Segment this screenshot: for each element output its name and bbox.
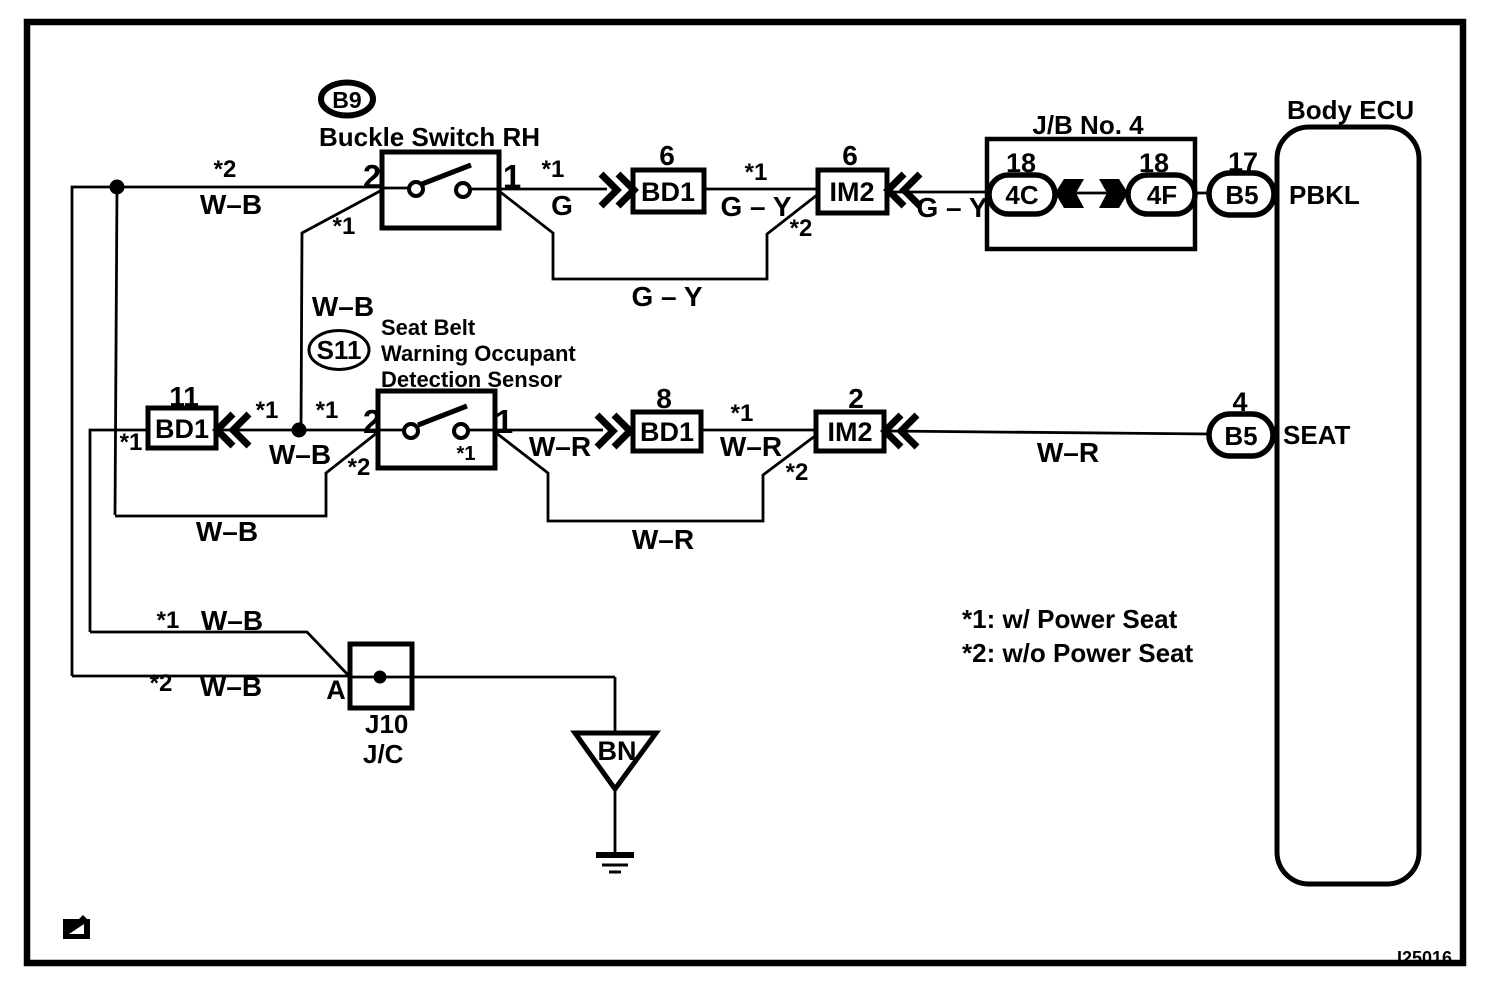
- ECU Body ECU box: [1277, 127, 1419, 884]
- svg-text:BD1: BD1: [640, 417, 694, 447]
- label *1 inside S11 box: [457, 443, 476, 465]
- wire *1 W-B branch to J10: [90, 632, 350, 677]
- pin 18 of 4F: [1139, 148, 1169, 178]
- label *1 on BD1 row2 left wire: [120, 429, 143, 456]
- svg-text:Warning Occupant: Warning Occupant: [381, 341, 576, 366]
- wire G-Y from BD1 to IM2 row1: [704, 188, 818, 191]
- junction block J/B No.4 box: [987, 139, 1195, 249]
- svg-text:W–R: W–R: [720, 431, 782, 462]
- svg-text:*1: *1: [457, 443, 476, 465]
- svg-text:W–B: W–B: [312, 291, 374, 322]
- wire G-Y *2 bypass loop row1: [499, 191, 817, 279]
- svg-text:Detection Sensor: Detection Sensor: [381, 367, 562, 392]
- svg-text:SEAT: SEAT: [1283, 420, 1351, 450]
- svg-text:*1: *1: [157, 607, 180, 634]
- svg-text:4F: 4F: [1147, 180, 1177, 210]
- switch B9 contacts and lever: [382, 165, 499, 197]
- svg-text:4C: 4C: [1005, 180, 1038, 210]
- svg-text:Seat Belt: Seat Belt: [381, 315, 476, 340]
- svg-text:*2: w/o Power Seat: *2: w/o Power Seat: [962, 638, 1194, 668]
- svg-text:W–B: W–B: [200, 671, 262, 702]
- terminal name PBKL: [1289, 180, 1360, 210]
- wire G from B9 pin 1 to BD1: [499, 188, 607, 191]
- component name Seat Belt Warning Occupant Detection Sensor: [381, 315, 576, 392]
- value label W-B on *2 J10 branch: [200, 671, 262, 702]
- svg-text:A: A: [326, 675, 346, 705]
- pin 1 of switch S11: [495, 403, 513, 440]
- splice arrows out of IM2 row1: [888, 174, 920, 206]
- svg-text:*2: *2: [214, 156, 237, 183]
- svg-text:W–B: W–B: [269, 439, 331, 470]
- wire W-R from S11 pin 1 to BD1 row2 right: [495, 429, 603, 432]
- svg-text:W–B: W–B: [201, 605, 263, 636]
- svg-text:G – Y: G – Y: [720, 191, 791, 222]
- value label W-R middle: [720, 431, 782, 462]
- splice arrows into BD1 row1: [601, 174, 634, 206]
- pin 17 of B5 row1: [1228, 147, 1258, 177]
- value label W-B row1 wire: [200, 189, 262, 220]
- wire W-R *2 bypass loop row2: [495, 432, 815, 521]
- svg-text:*1: *1: [542, 156, 565, 183]
- component name Buckle Switch RH: [319, 122, 540, 152]
- pin 6 of IM2 row1: [842, 140, 858, 171]
- label *1 on B9 diagonal: [333, 213, 356, 240]
- svg-text:*2: *2: [786, 459, 809, 486]
- svg-text:2: 2: [848, 383, 864, 414]
- wire W-B row1 from left bend to switch B9 pin 2: [72, 187, 382, 676]
- svg-text:IM2: IM2: [829, 177, 874, 207]
- label *1 on wire W-R: [731, 400, 754, 427]
- value label W-B on *1 J10 branch: [201, 605, 263, 636]
- note *2 w/o Power Seat: [962, 638, 1194, 668]
- pin 6 of BD1 row1: [659, 140, 675, 171]
- connector code S11: [309, 331, 369, 370]
- switch S11 contacts and lever: [378, 406, 495, 438]
- junction dot on W-B row2 wire: [292, 423, 307, 438]
- value label W-R row2 bypass: [632, 524, 694, 555]
- connector B5 row2: [1209, 414, 1273, 456]
- value label G: [551, 190, 573, 221]
- svg-text:6: 6: [842, 140, 858, 171]
- svg-text:BN: BN: [598, 736, 637, 766]
- svg-text:J10: J10: [365, 709, 408, 739]
- svg-text:11: 11: [169, 381, 199, 412]
- svg-text:8: 8: [656, 383, 672, 414]
- label *2 on W-B row1 wire: [214, 156, 237, 183]
- terminal name SEAT: [1283, 420, 1351, 450]
- value label W-B row2: [269, 439, 331, 470]
- connector IM2 row1: [818, 170, 887, 213]
- ground symbol: [596, 855, 634, 872]
- svg-text:*1: *1: [316, 397, 339, 424]
- svg-text:4: 4: [1232, 387, 1247, 417]
- value label G-Y row1 middle: [720, 191, 791, 222]
- corner mark bottom left: [63, 915, 90, 939]
- junction connector J10 box: [350, 644, 412, 708]
- svg-text:J/C: J/C: [363, 739, 404, 769]
- value label G-Y row1 bypass: [631, 281, 702, 312]
- value label W-B on S11 left loop: [196, 516, 258, 547]
- connector 4C: [989, 175, 1055, 214]
- splice arrows out of BD1 row2: [217, 414, 249, 446]
- svg-text:*2: *2: [348, 454, 371, 481]
- pin 8 of BD1 row2 right: [656, 383, 672, 414]
- svg-text:Body ECU: Body ECU: [1287, 95, 1414, 125]
- label *1 on wire G-Y: [745, 159, 768, 186]
- svg-text:PBKL: PBKL: [1289, 180, 1360, 210]
- svg-text:*1: w/ Power Seat: *1: w/ Power Seat: [962, 604, 1178, 634]
- label *2 on row1 bypass: [790, 215, 813, 242]
- svg-text:W–B: W–B: [196, 516, 258, 547]
- svg-text:B5: B5: [1225, 180, 1258, 210]
- svg-text:BD1: BD1: [155, 414, 209, 444]
- ground triangle BN: [575, 733, 656, 789]
- svg-text:6: 6: [659, 140, 675, 171]
- svg-text:W–B: W–B: [200, 189, 262, 220]
- junction block name J/B No. 4: [1032, 110, 1144, 140]
- svg-text:W–R: W–R: [632, 524, 694, 555]
- svg-text:S11: S11: [317, 335, 362, 365]
- svg-text:G: G: [551, 190, 573, 221]
- svg-text:Buckle Switch RH: Buckle Switch RH: [319, 122, 540, 152]
- connector B5 row1: [1209, 173, 1274, 215]
- wire from BN to ground: [614, 789, 617, 852]
- svg-text:B5: B5: [1224, 421, 1257, 451]
- ECU name Body ECU: [1287, 95, 1414, 125]
- wire G-Y from IM2 to J/B No.4: [888, 191, 990, 194]
- connector BD1 row2 right: [633, 412, 701, 451]
- value label W-R long wire: [1037, 437, 1099, 468]
- pin 18 of 4C: [1006, 148, 1036, 178]
- label *1 on J10 branch wire: [157, 607, 180, 634]
- pin 2 of switch B9: [363, 158, 381, 195]
- svg-text:2: 2: [363, 158, 381, 195]
- pin 2 of switch S11: [363, 403, 381, 440]
- wire through J10 to ground drop: [350, 677, 615, 735]
- svg-text:*2: *2: [150, 670, 173, 697]
- wire W-R from BD1 to IM2 row2: [701, 429, 816, 432]
- label *1 left of junction row2: [256, 397, 279, 424]
- svg-text:*1: *1: [333, 213, 356, 240]
- switch S11 box: [378, 391, 495, 468]
- connector 4F: [1128, 175, 1195, 214]
- svg-text:G – Y: G – Y: [916, 192, 987, 223]
- pin 1 of switch B9: [503, 158, 521, 195]
- connector IM2 row2: [816, 412, 884, 451]
- label *2 on J10 branch wire: [150, 670, 173, 697]
- connector BD1 row1: [633, 170, 704, 212]
- svg-text:G – Y: G – Y: [631, 281, 702, 312]
- connector BD1 row2: [148, 408, 216, 448]
- svg-text:*2: *2: [790, 215, 813, 242]
- internal link arrows inside J/B No.4: [1055, 179, 1128, 208]
- wire *1 from BD1 row2 left down to J10 branch: [90, 430, 148, 632]
- svg-text:W–R: W–R: [1037, 437, 1099, 468]
- wire W-B *2 loop from S11 pin 2 to vertical: [115, 432, 378, 516]
- value label W-B on vertical wire: [312, 291, 374, 322]
- value label W-R left: [529, 431, 591, 462]
- svg-text:*1: *1: [256, 397, 279, 424]
- svg-text:2: 2: [363, 403, 381, 440]
- figure number I25016: [1397, 948, 1452, 968]
- wire W-B vertical from junction down to S11 *2 loop: [115, 187, 117, 515]
- wire 4F to B5 row1: [1195, 192, 1210, 195]
- reference J10: [365, 709, 408, 739]
- label *2 on row2 bypass: [786, 459, 809, 486]
- connector code B9: [321, 83, 373, 116]
- reference J/C: [363, 739, 404, 769]
- svg-text:J/B No. 4: J/B No. 4: [1032, 110, 1144, 140]
- svg-text:*1: *1: [120, 429, 143, 456]
- svg-text:BD1: BD1: [641, 177, 695, 207]
- pin 11 of BD1 row2: [169, 381, 199, 412]
- label *1 right of junction row2: [316, 397, 339, 424]
- svg-text:18: 18: [1006, 148, 1036, 178]
- label *1 on wire G: [542, 156, 565, 183]
- junction dot on W-B row1 wire: [110, 180, 125, 195]
- junction dot inside J10: [374, 671, 387, 684]
- pin 4 of B5 row2: [1232, 387, 1247, 417]
- pin 2 of IM2 row2: [848, 383, 864, 414]
- svg-text:18: 18: [1139, 148, 1169, 178]
- splice arrows out of IM2 row2: [885, 415, 917, 447]
- wire *2 W-B branch to J10: [72, 675, 350, 678]
- svg-text:17: 17: [1228, 147, 1258, 177]
- svg-text:IM2: IM2: [827, 417, 872, 447]
- wire W-B row2 from BD1 to S11 pin 2: [216, 429, 378, 432]
- wire W-R long from IM2 to B5 row2: [885, 431, 1210, 434]
- splice arrows into BD1 row2 right: [597, 415, 630, 447]
- svg-text:I25016: I25016: [1397, 948, 1452, 968]
- note *1 w/ Power Seat: [962, 604, 1178, 634]
- svg-text:*1: *1: [731, 400, 754, 427]
- svg-text:B9: B9: [332, 87, 361, 113]
- value label G-Y at IM2: [916, 192, 987, 223]
- wire *1 diagonal from B9 pin 2 down to W-B vertical: [301, 190, 382, 430]
- label *2 on S11 left loop: [348, 454, 371, 481]
- svg-text:*1: *1: [745, 159, 768, 186]
- switch B9 box: [382, 152, 499, 228]
- svg-text:W–R: W–R: [529, 431, 591, 462]
- pin A of J10: [326, 675, 346, 705]
